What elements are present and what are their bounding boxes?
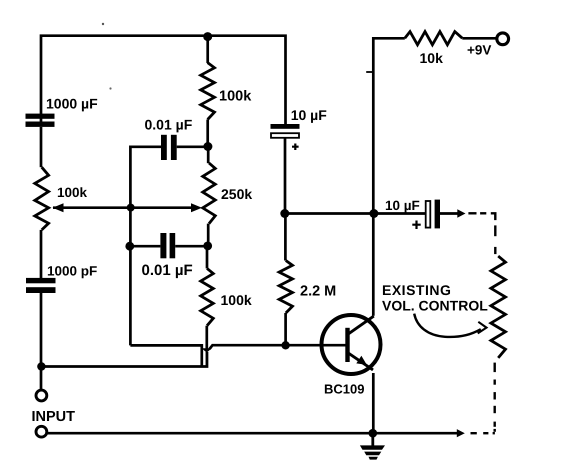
capacitor C5 10uF (top, electrolytic) [271, 124, 300, 214]
terminal INPUT lower circle [36, 426, 47, 437]
node dot collector line right [369, 209, 378, 218]
svg-text:100k: 100k [57, 185, 88, 200]
svg-text:0.01 µF: 0.01 µF [142, 262, 193, 279]
wire 2.2M top lead [284, 214, 287, 261]
plus sign C5 [292, 144, 299, 151]
curved wiper arrow to vol control [414, 314, 486, 337]
svg-text:VOL. CONTROL: VOL. CONTROL [382, 298, 488, 314]
wire 100k top lead [206, 37, 209, 63]
speck artifact [102, 23, 112, 90]
capacitor C6 10uF output (electrolytic) [426, 200, 459, 229]
svg-text:1000 µF: 1000 µF [46, 96, 98, 112]
wire top rail [41, 36, 286, 125]
arrowhead left wiper [53, 203, 64, 212]
capacitor C1 1000uF [26, 114, 55, 127]
small tick artifact on right vertical [366, 71, 372, 73]
potentiometer VR3 existing vol control [491, 256, 506, 358]
dashed link top (output to vol control) [468, 213, 495, 254]
node ground junction dot [369, 429, 378, 438]
label existing vol control [382, 282, 488, 314]
capacitor C3 0.01uF (upper) [161, 135, 208, 160]
svg-text:10 µF: 10 µF [291, 107, 328, 123]
potentiometer VR2 250k [203, 163, 216, 224]
wire C2 to input junction [40, 293, 43, 390]
transistor Q1 BC109 [322, 315, 381, 374]
capacitor C2 1000pF [26, 278, 56, 293]
ground symbol [360, 433, 385, 459]
resistor R2 100k (lower middle) [201, 268, 214, 325]
node input junction dot [37, 362, 45, 370]
resistor R3 2.2M [279, 261, 292, 314]
arrowhead output [457, 209, 465, 217]
wire pot to C2 [40, 230, 43, 278]
arrowhead right wiper [191, 203, 202, 212]
dashed link bottom (vol control to ground line) [471, 363, 495, 434]
svg-text:+9V: +9V [467, 43, 491, 58]
potentiometer VR1 100k (left) [35, 167, 49, 230]
node A junction dot top rail / 100k [203, 32, 212, 41]
svg-text:EXISTING: EXISTING [382, 282, 451, 298]
terminal INPUT upper circle [36, 390, 47, 401]
wiper link line with double arrows [53, 206, 198, 209]
wire left inner branch (0.01uF plates column x=130) [130, 147, 161, 346]
wire 250k bottom lead [207, 224, 210, 246]
wire left branch between C1 and pot [40, 127, 43, 167]
svg-text:INPUT: INPUT [32, 409, 76, 425]
node dot 250k/100k/C4 junction [203, 242, 212, 251]
wire 250k top lead [207, 147, 210, 164]
svg-text:10k: 10k [420, 50, 444, 66]
wire base line right segment to transistor [210, 345, 346, 349]
wire bottom ground line [47, 432, 459, 435]
capacitor C4 0.01uF (lower) [130, 233, 208, 258]
node dot C3 right / 100k / 250k junction [203, 142, 212, 151]
arrowhead down at base crossing [202, 348, 212, 352]
svg-text:100k: 100k [219, 89, 252, 105]
wire right vertical (collector supply) [373, 38, 405, 316]
wire 2.2M bottom lead [284, 313, 287, 345]
wire 100k bottom lead [206, 120, 209, 147]
svg-text:0.01 µF: 0.01 µF [145, 117, 193, 133]
plus sign C6 [412, 221, 420, 230]
wire 100k lower top lead [206, 246, 209, 269]
node dot collector line left [280, 209, 289, 218]
wire base line left segment [130, 345, 201, 365]
node dot C4 left plate junction [125, 242, 134, 251]
node dot 2.2M bottom [281, 341, 289, 349]
svg-text:10 µF: 10 µF [385, 198, 420, 213]
wire 100k lower bottom lead with down arrow [205, 326, 208, 367]
svg-text:2.2 M: 2.2 M [300, 284, 336, 300]
svg-text:BC109: BC109 [324, 382, 364, 397]
arrowhead bottom line [457, 429, 465, 437]
wire input junction to 100k/250k bottom [41, 352, 207, 367]
svg-text:100k: 100k [221, 292, 252, 308]
wire 10k to +9V terminal [462, 37, 497, 40]
wire emitter to ground [372, 373, 375, 433]
svg-text:250k: 250k [221, 186, 252, 202]
resistor R1 100k (upper middle) [201, 63, 215, 120]
wire collector node line [285, 212, 426, 215]
resistor R4 10k [405, 32, 463, 45]
svg-text:1000 pF: 1000 pF [47, 264, 97, 279]
node dot wiper line / inner branch [127, 204, 135, 212]
terminal +9V circle [497, 33, 509, 45]
